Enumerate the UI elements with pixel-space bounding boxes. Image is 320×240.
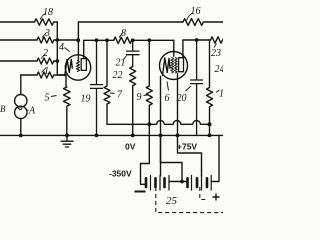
resistor 7 (104, 40, 110, 124)
wire input D (21, 74, 37, 76)
tube 6 grid 2 (175, 58, 178, 74)
mic tilde (16, 108, 22, 110)
svg-text:8: 8 (121, 28, 126, 39)
svg-text:24: 24 (215, 64, 224, 75)
wire input C (0, 60, 37, 62)
svg-text:4: 4 (59, 42, 64, 53)
mic line up (20, 75, 22, 95)
svg-text:20: 20 (177, 93, 187, 104)
wire step B to battery tap (178, 135, 202, 176)
tube 4 envelope (65, 55, 90, 80)
svg-text:-350V: -350V (109, 169, 132, 179)
svg-text:+75V: +75V (177, 142, 197, 152)
resistor 8 (114, 37, 174, 43)
battery inter-group wire (169, 181, 188, 183)
wire tube4 plate up (84, 40, 97, 58)
capacitor 19 (91, 40, 103, 135)
capacitor 20 (191, 40, 203, 135)
battery right end wire up to bus (211, 135, 219, 181)
svg-text:1: 1 (219, 89, 223, 100)
svg-text:6: 6 (165, 93, 170, 104)
mic circle upper (15, 95, 27, 107)
svg-text:0V: 0V (125, 142, 136, 152)
svg-text:21: 21 (116, 58, 126, 69)
resistor 3 (37, 37, 78, 43)
svg-text:2: 2 (43, 48, 48, 59)
svg-text:18: 18 (43, 7, 53, 18)
resistor 9 (146, 40, 152, 163)
tube 4 filament (65, 60, 73, 76)
resistor 16 (183, 19, 223, 26)
wire tube6 filament left down (160, 77, 162, 177)
svg-text:19: 19 (81, 94, 91, 105)
wire 0V rail (107, 121, 210, 125)
svg-text:5: 5 (45, 93, 50, 104)
svg-text:A: A (28, 106, 36, 117)
dashed battery box (156, 187, 223, 213)
wire tube6 filament right down (177, 74, 179, 136)
resistor 1 (37, 72, 66, 78)
ground bus (0, 134, 223, 136)
resistor 18 (35, 19, 58, 25)
battery group 2 cells (192, 176, 212, 191)
wire battery jog left (141, 164, 150, 185)
mic line down (20, 119, 22, 136)
resistor 23 (211, 37, 224, 43)
tube 6 filament (163, 58, 171, 76)
leader lines (26, 13, 219, 110)
svg-text:23: 23 (211, 48, 221, 59)
battery group 1 cells (151, 176, 170, 191)
wire bus top corner (56, 22, 58, 75)
wire tube4 grid column (77, 22, 79, 60)
svg-text:25: 25 (166, 195, 178, 207)
wire top right feedback (78, 21, 183, 23)
svg-text:16: 16 (191, 6, 201, 17)
ground (61, 135, 73, 147)
svg-text:1: 1 (44, 66, 49, 77)
tube 4 grid (77, 61, 80, 72)
battery polarity marks (135, 192, 220, 201)
wire rail corner to tube6 grid (173, 40, 175, 56)
mic circle lower (15, 106, 27, 118)
resistor 24 (207, 40, 213, 135)
wire step A to battery (161, 135, 183, 181)
svg-text:22: 22 (113, 70, 123, 81)
wire tube6 plate up (183, 40, 211, 58)
svg-text:B: B (0, 104, 6, 114)
wire tube4 filament down (65, 76, 67, 87)
resistor 5 (64, 87, 71, 135)
tube 6 plate (179, 58, 184, 72)
tube 4 plate (81, 59, 86, 71)
resistor 22 (130, 67, 136, 136)
wire bus to tube4 filament (wire D cont.) (57, 74, 66, 76)
tube 6 grid 1 (171, 58, 174, 74)
wire input A (0, 21, 35, 23)
svg-text:3: 3 (44, 28, 50, 39)
wire plate rail to resistor 8 (97, 39, 114, 41)
wire input B (0, 39, 37, 41)
resistor 2 (37, 58, 57, 64)
capacitor 21 (127, 40, 140, 66)
tube 6 envelope (160, 52, 188, 80)
svg-text:9: 9 (137, 92, 142, 103)
